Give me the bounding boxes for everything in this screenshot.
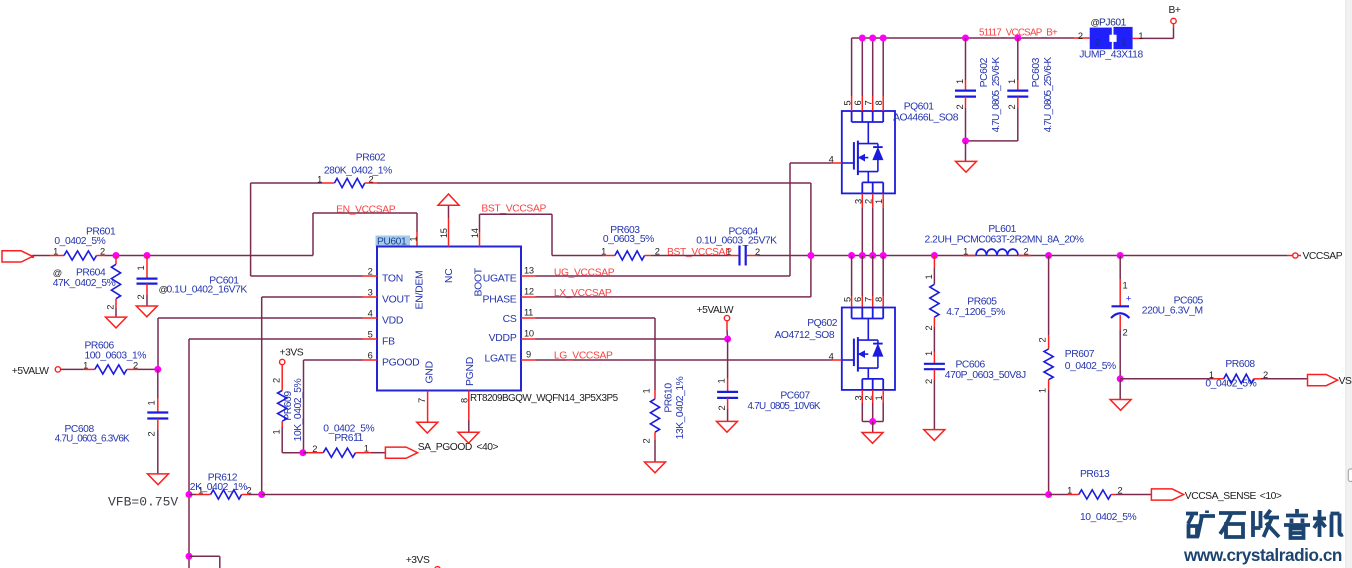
svg-text:+: + bbox=[1126, 294, 1132, 305]
transistor Q2 PQ602 AO4712 bbox=[842, 308, 895, 390]
ground PC607 bbox=[717, 421, 738, 432]
wire sense row bbox=[262, 494, 1049, 496]
node PGOOD/PR609/PR611 bbox=[299, 449, 306, 456]
node main/PR604 bbox=[113, 252, 120, 259]
svg-text:PGND: PGND bbox=[465, 357, 476, 386]
node main/PC601 bbox=[144, 252, 151, 259]
svg-text:3: 3 bbox=[368, 287, 373, 297]
svg-text:10_0402_5%: 10_0402_5% bbox=[1080, 512, 1136, 523]
svg-text:AO4466L_SO8: AO4466L_SO8 bbox=[893, 113, 959, 124]
svg-text:2: 2 bbox=[105, 305, 115, 310]
svg-text:1: 1 bbox=[136, 265, 146, 270]
svg-text:4: 4 bbox=[829, 154, 834, 164]
svg-text:TON: TON bbox=[382, 273, 403, 284]
ground PC602/PC603 bbox=[956, 161, 977, 172]
wire EN_VCCSAP bbox=[312, 213, 314, 256]
svg-text:1: 1 bbox=[717, 378, 727, 383]
wire UGATE to PQ601 gate bbox=[536, 275, 791, 277]
svg-text:NC: NC bbox=[444, 268, 455, 283]
capacitor PC603 bbox=[1014, 35, 1021, 42]
svg-text:7: 7 bbox=[417, 398, 427, 403]
svg-text:8: 8 bbox=[460, 398, 470, 403]
svg-text:EN/DEM: EN/DEM bbox=[415, 271, 426, 310]
svg-text:VOUT: VOUT bbox=[382, 294, 411, 305]
svg-text:BST_VCCSAP: BST_VCCSAP bbox=[667, 247, 732, 258]
svg-text:0.1U_0603_25V7K: 0.1U_0603_25V7K bbox=[696, 236, 777, 247]
ground PC608 bbox=[148, 474, 169, 485]
capacitor PC602 bbox=[962, 35, 969, 42]
ground PC605 bbox=[1110, 400, 1131, 411]
svg-text:PL601: PL601 bbox=[988, 224, 1016, 235]
svg-text:8: 8 bbox=[874, 297, 884, 302]
svg-text:CS: CS bbox=[503, 314, 517, 325]
svg-text:6: 6 bbox=[368, 350, 373, 360]
svg-text:EN_VCCSAP: EN_VCCSAP bbox=[336, 205, 396, 216]
svg-text:2: 2 bbox=[368, 266, 373, 276]
wires rail to PQ601 drain bbox=[851, 38, 853, 96]
svg-text:0_0603_5%: 0_0603_5% bbox=[603, 234, 654, 245]
svg-text:+3VS: +3VS bbox=[280, 348, 304, 359]
svg-text:1: 1 bbox=[1123, 281, 1128, 291]
svg-text:LGATE: LGATE bbox=[484, 353, 516, 364]
svg-text:AO4712_SO8: AO4712_SO8 bbox=[775, 330, 835, 341]
svg-text:13: 13 bbox=[524, 265, 534, 275]
svg-text:SA_PGOOD: SA_PGOOD bbox=[418, 442, 472, 453]
svg-text:1: 1 bbox=[924, 274, 934, 279]
pin 2 TON stub bbox=[363, 275, 378, 277]
svg-text:PR607: PR607 bbox=[1065, 349, 1095, 360]
svg-text:PR611: PR611 bbox=[334, 433, 363, 444]
wire LX_VCCSAP to PHASE pin bbox=[536, 296, 811, 298]
svg-text:PC602: PC602 bbox=[979, 57, 990, 87]
svg-text:4: 4 bbox=[829, 351, 834, 361]
svg-text:<40>: <40> bbox=[476, 442, 498, 453]
svg-text:BST_VCCSAP: BST_VCCSAP bbox=[481, 204, 546, 215]
svg-text:4.7_1206_5%: 4.7_1206_5% bbox=[946, 307, 1005, 318]
svg-text:4.7U_0805_10V6K: 4.7U_0805_10V6K bbox=[748, 401, 821, 412]
wire FB bottom jog bbox=[189, 555, 220, 557]
op-amp U1 PU601 RT8209B controller body bbox=[376, 236, 411, 247]
svg-text:10K_0402_5%: 10K_0402_5% bbox=[293, 378, 304, 441]
svg-text:13K_0402_1%: 13K_0402_1% bbox=[675, 376, 686, 439]
svg-text:2: 2 bbox=[272, 378, 282, 383]
pin 11 CS stub bbox=[521, 317, 536, 319]
svg-text:FB: FB bbox=[382, 336, 395, 347]
wires PQ602 source to ground bbox=[861, 390, 863, 403]
wire PR603 to PC604 bbox=[651, 255, 728, 257]
input terminal arrow bbox=[2, 251, 33, 262]
terminal SA_PGOOD arrow bbox=[385, 447, 417, 458]
svg-text:220U_6.3V_M: 220U_6.3V_M bbox=[1142, 306, 1203, 317]
resistor PR604 bbox=[115, 256, 117, 265]
power B+ terminal bbox=[1171, 18, 1176, 23]
svg-text:@: @ bbox=[53, 268, 62, 278]
pin 4 gate stub PQ602 bbox=[832, 359, 842, 361]
resistor PR609 bbox=[281, 365, 283, 391]
svg-text:0_0402_5%: 0_0402_5% bbox=[1065, 361, 1116, 372]
wires phase to PQ602 drain bbox=[851, 256, 853, 297]
svg-text:2: 2 bbox=[369, 175, 374, 185]
svg-text:2: 2 bbox=[146, 431, 156, 436]
resistor PR605 bbox=[933, 256, 935, 269]
ground PQ602 bbox=[862, 433, 883, 444]
svg-text:2: 2 bbox=[1038, 337, 1048, 342]
svg-text:2: 2 bbox=[133, 360, 138, 370]
svg-text:2: 2 bbox=[1007, 104, 1017, 109]
svg-text:+3VS: +3VS bbox=[406, 555, 430, 566]
wire PR601 to EN corner bbox=[105, 255, 313, 257]
svg-text:47K_0402_5%: 47K_0402_5% bbox=[53, 278, 116, 289]
terminal VCCSAP bbox=[1293, 253, 1298, 258]
wire PGOOD down bbox=[304, 359, 363, 361]
svg-text:2.2UH_PCMC063T-2R2MN_8A_20%: 2.2UH_PCMC063T-2R2MN_8A_20% bbox=[925, 235, 1084, 246]
svg-text:2: 2 bbox=[924, 379, 934, 384]
watermark crystalradio logo bbox=[1186, 509, 1343, 538]
svg-text:1: 1 bbox=[409, 237, 419, 242]
svg-text:11: 11 bbox=[524, 307, 533, 317]
svg-text:VFB=0.75V: VFB=0.75V bbox=[108, 494, 178, 509]
svg-text:UGATE: UGATE bbox=[483, 273, 517, 284]
svg-text:1: 1 bbox=[1138, 31, 1143, 41]
nodes phase row FET bbox=[848, 252, 855, 259]
svg-text:2: 2 bbox=[1123, 328, 1128, 338]
svg-text:2: 2 bbox=[642, 438, 652, 443]
svg-text:470P_0603_50V8J: 470P_0603_50V8J bbox=[945, 370, 1026, 381]
svg-text:14: 14 bbox=[470, 228, 480, 238]
pin 6 PGOOD stub bbox=[363, 359, 378, 361]
svg-text:1: 1 bbox=[83, 360, 88, 370]
svg-text:PR604: PR604 bbox=[76, 268, 106, 279]
scrollbar strip bbox=[1346, 0, 1352, 568]
svg-text:5: 5 bbox=[368, 329, 373, 339]
svg-text:VS: VS bbox=[1339, 376, 1352, 387]
svg-text:PQ601: PQ601 bbox=[904, 102, 935, 113]
svg-text:10: 10 bbox=[524, 328, 534, 338]
wire input to PR601 bbox=[33, 255, 50, 257]
svg-text:0_0402_5%: 0_0402_5% bbox=[54, 236, 105, 247]
node PC605 bottom / VS bbox=[1117, 375, 1124, 382]
svg-text:1: 1 bbox=[1007, 79, 1017, 84]
svg-text:RT8209BGQW_WQFN14_3P5X3P5: RT8209BGQW_WQFN14_3P5X3P5 bbox=[470, 393, 619, 404]
node VDD/PR606/PC608 bbox=[154, 366, 161, 373]
resistor PR607 bbox=[1048, 256, 1050, 336]
capacitor PC607 bbox=[727, 339, 729, 378]
capacitor PC605 bbox=[1119, 256, 1121, 280]
wires PQ601 source to phase bbox=[861, 193, 863, 208]
svg-text:4.7U_0805_25V6-K: 4.7U_0805_25V6-K bbox=[1043, 56, 1054, 132]
svg-text:1: 1 bbox=[955, 79, 965, 84]
transistor Q1 PQ601 AO4466L bbox=[842, 111, 895, 193]
node phase/snubber bbox=[931, 252, 938, 259]
wire CS to PR610 bbox=[536, 317, 656, 319]
terminal VCCSA_SENSE arrow bbox=[1151, 489, 1183, 500]
svg-text:PR605: PR605 bbox=[967, 297, 997, 308]
svg-text:PR608: PR608 bbox=[1225, 359, 1255, 370]
no-connect symbol NC bbox=[448, 218, 450, 247]
capacitor PC608 bbox=[157, 369, 159, 398]
svg-text:7: 7 bbox=[864, 297, 874, 302]
svg-text:B+: B+ bbox=[1169, 5, 1181, 16]
wire VDDP row bbox=[536, 338, 728, 340]
svg-text:2: 2 bbox=[955, 104, 965, 109]
svg-text:280K_0402_1%: 280K_0402_1% bbox=[324, 166, 392, 177]
svg-text:15: 15 bbox=[439, 228, 449, 238]
node PQ602 source bbox=[869, 418, 876, 425]
nodes top rail bbox=[859, 35, 866, 42]
svg-text:1: 1 bbox=[1121, 38, 1126, 48]
wire LGATE to PQ602 gate bbox=[536, 359, 832, 361]
ground PC601 bbox=[136, 306, 157, 317]
pin 12 PHASE stub bbox=[521, 296, 536, 298]
resistor PR606 bbox=[61, 368, 83, 370]
pin 8 PGND stub + ground bbox=[468, 391, 470, 421]
terminal VS arrow bbox=[1308, 375, 1338, 386]
wire VCCSAP terminal bbox=[1287, 255, 1293, 257]
svg-text:GND: GND bbox=[424, 361, 435, 383]
wire PJ601 pin1 to B+ bbox=[1133, 37, 1143, 39]
svg-text:www.crystalradio.cn: www.crystalradio.cn bbox=[1183, 545, 1342, 565]
wire PC603 to PC602 bottom bbox=[966, 140, 1018, 142]
svg-text:1: 1 bbox=[317, 175, 322, 185]
pin 5 FB stub bbox=[363, 338, 378, 340]
wire phase row bbox=[758, 255, 1287, 257]
svg-text:9: 9 bbox=[526, 349, 531, 359]
pin 3 VOUT stub bbox=[363, 296, 378, 298]
svg-text:4.7U_0603_6.3V6K: 4.7U_0603_6.3V6K bbox=[55, 433, 130, 444]
ground PR610 bbox=[645, 462, 666, 473]
node VCCSAP/PC605 bbox=[1117, 252, 1124, 259]
svg-text:1: 1 bbox=[1038, 388, 1048, 393]
svg-text:6: 6 bbox=[853, 297, 863, 302]
svg-text:LG_VCCSAP: LG_VCCSAP bbox=[554, 351, 613, 362]
svg-text:2: 2 bbox=[1095, 38, 1100, 48]
svg-text:PJ601: PJ601 bbox=[1099, 18, 1127, 29]
svg-text:<10>: <10> bbox=[1260, 491, 1282, 502]
svg-text:1: 1 bbox=[642, 388, 652, 393]
pin 4 VDD stub bbox=[363, 317, 378, 319]
svg-text:+5VALW: +5VALW bbox=[697, 305, 734, 316]
wire top rail B+ bbox=[852, 37, 1074, 39]
node FB lower stub bbox=[186, 553, 193, 560]
svg-text:1: 1 bbox=[272, 429, 282, 434]
svg-text:4: 4 bbox=[368, 308, 373, 318]
svg-text:PR613: PR613 bbox=[1080, 469, 1110, 480]
node PC602 bottom bbox=[962, 137, 969, 144]
svg-text:UG_VCCSAP: UG_VCCSAP bbox=[554, 267, 615, 278]
svg-text:1: 1 bbox=[924, 351, 934, 356]
svg-text:0_0402_5%: 0_0402_5% bbox=[1205, 378, 1256, 389]
svg-text:4.7U_0805_25V6-K: 4.7U_0805_25V6-K bbox=[991, 56, 1002, 132]
pin 9 LGATE stub bbox=[521, 359, 536, 361]
svg-text:12: 12 bbox=[524, 286, 534, 296]
svg-text:2: 2 bbox=[1024, 247, 1029, 257]
pin 13 UGATE stub bbox=[521, 275, 536, 277]
pin 7 GND stub + ground bbox=[427, 391, 429, 423]
node VOUT/sense row bbox=[258, 491, 265, 498]
svg-text:PC603: PC603 bbox=[1031, 57, 1042, 87]
svg-text:2: 2 bbox=[136, 294, 146, 299]
pin 4 gate stub PQ601 bbox=[820, 162, 832, 164]
capacitor PC601 bbox=[146, 256, 148, 278]
wire VOUT down bbox=[262, 296, 363, 298]
node FB/PR612 bbox=[186, 491, 193, 498]
node VDDP/+5VALW bbox=[724, 336, 731, 343]
ground PR604 bbox=[106, 317, 127, 328]
node VCCSAP/PR607 bbox=[1045, 252, 1052, 259]
ground PC606 bbox=[924, 430, 945, 441]
svg-text:2: 2 bbox=[717, 405, 727, 410]
svg-text:PC607: PC607 bbox=[780, 391, 810, 402]
svg-text:+5VALW: +5VALW bbox=[12, 366, 49, 377]
svg-text:VCCSA_SENSE: VCCSA_SENSE bbox=[1185, 491, 1257, 502]
svg-text:1: 1 bbox=[53, 247, 58, 257]
capacitor PC606 bbox=[933, 352, 935, 364]
svg-text:PHASE: PHASE bbox=[483, 294, 517, 305]
svg-text:VDDP: VDDP bbox=[489, 333, 517, 344]
resistor PR613 bbox=[1049, 494, 1068, 496]
svg-text:PC606: PC606 bbox=[956, 360, 986, 371]
svg-text:VCCSAP: VCCSAP bbox=[1303, 251, 1343, 262]
svg-text:PR610: PR610 bbox=[664, 383, 675, 413]
svg-text:LX_VCCSAP: LX_VCCSAP bbox=[554, 288, 612, 299]
wire BST row bbox=[552, 255, 603, 257]
wire TON to PR602 bbox=[251, 275, 363, 277]
pin 10 VDDP stub bbox=[521, 338, 536, 340]
svg-text:5: 5 bbox=[842, 297, 852, 302]
svg-text:VDD: VDD bbox=[382, 315, 403, 326]
svg-text:0.1U_0402_16V7K: 0.1U_0402_16V7K bbox=[167, 284, 248, 295]
svg-text:PR602: PR602 bbox=[356, 153, 386, 164]
svg-text:1: 1 bbox=[364, 444, 369, 454]
wire VDD to +5V node bbox=[158, 317, 363, 319]
node phase/TON-LX vertical bbox=[807, 252, 814, 259]
svg-text:JUMP_43X118: JUMP_43X118 bbox=[1079, 50, 1143, 61]
node PR607/sense row bbox=[1045, 491, 1052, 498]
wire BOOT to BST bbox=[479, 232, 481, 247]
svg-text:PGOOD: PGOOD bbox=[382, 357, 419, 368]
svg-text:1: 1 bbox=[146, 400, 156, 405]
wire FB down bbox=[189, 338, 363, 340]
svg-text:PQ602: PQ602 bbox=[807, 318, 838, 329]
svg-text:2: 2 bbox=[1078, 31, 1083, 41]
wire PR602 to phase bbox=[377, 182, 811, 184]
svg-text:2: 2 bbox=[924, 325, 934, 330]
wire VS row bbox=[1120, 378, 1214, 380]
svg-text:BOOT: BOOT bbox=[474, 267, 485, 296]
